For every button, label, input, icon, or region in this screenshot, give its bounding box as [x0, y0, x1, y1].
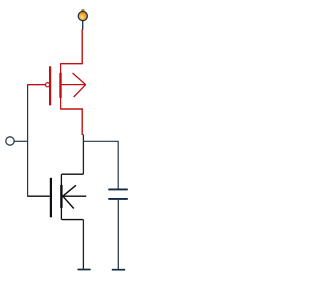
drain connector thin — [60, 174, 62, 185]
wire input lead — [14, 140, 27, 142]
source connector thin — [60, 207, 62, 219]
source lead bottom — [62, 219, 84, 221]
wire output net vertical (navy) — [82, 134, 84, 174]
bulk arrow barb lower — [63, 196, 74, 208]
capacitor C1 bottom plate — [108, 198, 128, 200]
gate bar — [50, 178, 52, 218]
bulk lead — [61, 84, 85, 86]
node Vin terminal — [6, 137, 14, 145]
bulk lead — [63, 195, 87, 197]
channel bar thick — [60, 185, 62, 208]
channel bar thick — [59, 73, 61, 98]
power terminal VDD nub — [81, 9, 84, 12]
wire NMOS source to ground — [82, 220, 84, 269]
transistor Q2 NMOS (black) — [28, 174, 87, 219]
power terminal VDD bubble — [78, 12, 87, 21]
wire PMOS drain down (red) — [81, 109, 83, 135]
source connector thin — [60, 97, 62, 109]
wire VDD stub — [82, 21, 84, 30]
wire input bus — [27, 84, 29, 196]
ground symbol G1 — [78, 269, 91, 271]
drain lead top — [62, 173, 84, 175]
bulk arrow barb upper — [73, 73, 86, 85]
bulk arrow barb upper — [63, 185, 76, 196]
transistor Q1 PMOS (red) — [28, 64, 86, 109]
bulk arrow barb lower — [74, 85, 86, 97]
drain lead bottom — [60, 108, 83, 110]
wire output branch to capacitor — [83, 141, 118, 188]
wire gate lead — [28, 84, 46, 86]
wire capacitor to ground — [117, 200, 119, 269]
source lead top — [60, 63, 83, 65]
wire gate lead — [28, 195, 50, 197]
gate bar — [49, 66, 51, 105]
gate bubble — [46, 83, 50, 87]
drain connector thin — [60, 64, 62, 74]
ground symbol G2 — [112, 269, 125, 271]
wire PMOS drain to VDD (red) — [81, 30, 83, 64]
capacitor C1 top plate — [108, 188, 128, 190]
